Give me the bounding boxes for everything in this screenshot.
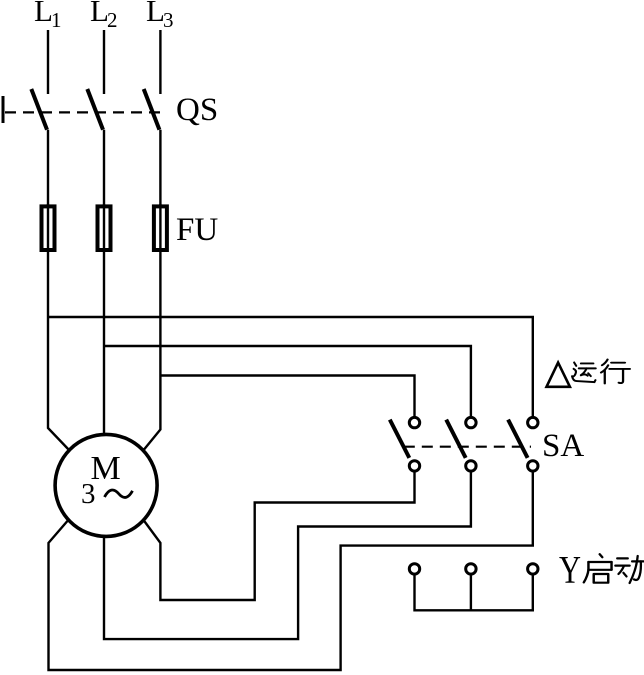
motor 3-phase label [81,478,96,510]
switch SA linkage dashed line [404,446,531,448]
switch SA blade pole 3 [508,420,527,458]
wire fuse3 down to motor lead W [142,253,160,453]
label delta-run (triangle + chinese yun xing) [547,360,630,387]
svg-text:3: 3 [81,478,96,510]
node Y contact 3 [528,564,538,574]
node L2 label [90,0,118,32]
wire fuse1 down to motor lead U [48,253,70,452]
switch SA pole 3 top contact [528,417,538,427]
switch SA blade pole 2 [446,420,466,458]
node L1 label [34,0,62,32]
wire Y star bridge middle stub [470,574,472,610]
wire motor W2 lead to network (inner) [142,471,415,600]
fuse FU pole 3 [154,204,167,253]
switch SA pole 1 bottom contact [409,461,419,471]
switch SA blade pole 1 [390,420,410,458]
svg-text:Y: Y [559,548,581,591]
svg-text:1: 1 [51,8,62,32]
switch SA label [542,428,584,464]
fuse FU pole 2 [98,204,111,253]
wire fuse2 down to motor lead V [103,253,105,443]
switch QS handle tick [2,96,5,123]
switch SA pole 2 bottom contact [466,461,476,471]
switch QS blade pole 3 [144,89,160,130]
wire QS to fuses pole 1 [47,130,49,205]
fuse FU label [176,212,218,248]
svg-text:QS: QS [176,92,218,128]
switch QS linkage dashed line [5,111,161,113]
svg-text:SA: SA [542,428,584,464]
switch QS blade pole 2 [87,89,103,130]
svg-text:FU: FU [176,212,218,248]
wire Y star bridge [415,574,533,610]
node L3 label [146,0,174,32]
motor tilde symbol [105,490,133,497]
switch SA pole 1 top contact [409,417,419,427]
wire motor U2 lead to Y/delta network (bottom left, outermost) [49,471,533,670]
wire branch L2 to SA pole2 top [104,346,471,417]
wire QS to fuses pole 3 [159,130,161,205]
switch QS label [176,92,218,128]
fuse FU pole 1 [42,204,55,253]
svg-text:3: 3 [163,8,174,32]
motor M letter [91,450,121,487]
label Y-start (Y + chinese qi dong) [559,548,644,591]
svg-text:2: 2 [107,8,118,32]
motor M circle [55,434,157,536]
node Y contact 2 [466,564,476,574]
wire branch L1 to SA pole3 top [48,317,533,417]
node Y contact 1 [409,564,419,574]
wire motor V2 lead to network (middle) [104,471,471,639]
wire L1 incoming [47,30,49,94]
wire QS to fuses pole 2 [103,130,105,205]
wire branch L3 to SA pole1 top [160,376,414,418]
switch QS blade pole 1 [31,89,47,130]
switch SA pole 2 top contact [466,417,476,427]
switch SA pole 3 bottom contact [528,461,538,471]
wire L3 incoming [159,30,161,94]
wire L2 incoming [103,30,105,94]
